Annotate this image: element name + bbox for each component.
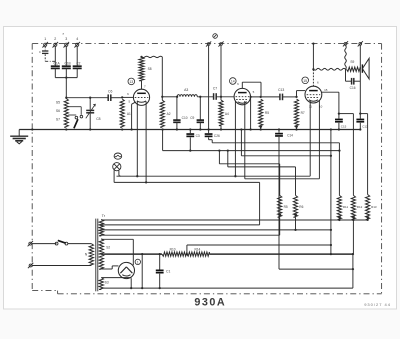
wire heater bus L1 <box>101 219 368 221</box>
resistor R5 <box>259 99 270 129</box>
resistor R10 <box>162 247 187 256</box>
voice coil S9 <box>347 60 361 72</box>
svg-text:S7: S7 <box>56 118 60 122</box>
coil A4 <box>219 97 229 130</box>
chassis dash-dot border right <box>381 44 383 294</box>
tube V2 anode lead <box>242 82 261 88</box>
wire anode down to R5 <box>260 82 262 98</box>
tube V4 rectifier <box>118 262 134 278</box>
svg-text:R12: R12 <box>357 205 363 209</box>
svg-text:C3: C3 <box>196 134 200 138</box>
wire rectifier output line B3 <box>101 287 353 289</box>
svg-text:C12: C12 <box>362 125 368 129</box>
svg-text:A1: A1 <box>127 112 131 116</box>
wire terminal 3 down <box>65 46 67 65</box>
svg-text:S6: S6 <box>56 109 60 113</box>
wire C7 to tube V2 grid <box>216 96 234 98</box>
resistor R11 hang <box>337 195 348 219</box>
svg-text:R14: R14 <box>194 247 200 251</box>
transformer secondary S2 <box>99 239 110 270</box>
antenna terminal 4 <box>74 42 80 48</box>
wire heater bus L4 <box>101 234 279 236</box>
svg-text:15: 15 <box>303 79 307 83</box>
wire A3 to C7 <box>197 96 213 98</box>
wire HT line B1 <box>101 253 354 255</box>
svg-text:1: 1 <box>44 37 46 41</box>
capacitor C9 <box>190 97 204 130</box>
svg-text:C9: C9 <box>190 116 194 120</box>
pickup terminal 2 <box>218 41 223 46</box>
capacitor C2 <box>73 62 82 69</box>
svg-text:C6: C6 <box>108 89 112 93</box>
tube V4 designator <box>135 259 140 264</box>
coil A3 <box>177 88 197 97</box>
svg-text:R5: R5 <box>284 205 288 209</box>
antenna terminal 2 <box>53 42 59 48</box>
variable capacitor C8 <box>86 98 101 130</box>
tube V1 pin labels <box>127 85 146 104</box>
wire heater line H2b <box>245 178 320 180</box>
svg-text:C7: C7 <box>213 87 217 91</box>
svg-text:4: 4 <box>76 37 78 41</box>
wire down to A2 <box>161 57 163 100</box>
wire screen feed horizontal <box>187 244 332 254</box>
svg-text:A3: A3 <box>184 88 188 92</box>
resistor R3 <box>278 195 288 235</box>
ground bus <box>19 128 360 130</box>
wire grid row left <box>66 97 108 99</box>
wire heater bus L3 <box>101 229 332 231</box>
wire mains 2 to transformer <box>32 265 91 267</box>
wire R12 bottom down <box>352 220 355 288</box>
wire tube V2 right pin to bus <box>250 97 252 130</box>
wire antenna down to coil <box>65 78 67 99</box>
wire AVC line M2 <box>163 130 340 152</box>
dial lamp leads <box>114 170 121 182</box>
resistor R12 hang <box>351 195 362 219</box>
svg-text:2: 2 <box>54 37 56 41</box>
wire C13 to R7 <box>283 96 298 98</box>
speaker terminal 2 <box>358 41 363 46</box>
svg-text:C10: C10 <box>182 116 188 120</box>
capacitor C16 <box>346 78 361 90</box>
pickup input socket <box>213 34 218 39</box>
chassis dash-dot border left <box>31 44 33 291</box>
transformer primary S1 <box>85 244 94 266</box>
tube V3 designator <box>302 77 309 84</box>
capacitor C3 <box>186 128 200 150</box>
capacitor C14 <box>275 128 293 269</box>
svg-text:A4: A4 <box>225 112 229 116</box>
capacitor C1 filter <box>156 254 171 289</box>
wire heater line H1 <box>117 175 311 177</box>
transformer secondary S4 <box>99 219 103 236</box>
resistor R13 hang <box>366 195 377 220</box>
coil A2 <box>160 100 171 127</box>
capacitor C10 <box>173 97 188 130</box>
wire tube V2 output row <box>249 96 279 98</box>
svg-text:C16: C16 <box>350 86 356 90</box>
wire S2 top to rectifier anode <box>101 239 133 265</box>
chassis dash-dot border bottom-left jog <box>32 291 57 294</box>
wire switch to transformer <box>68 243 92 245</box>
mains terminal 2 <box>28 263 33 268</box>
wire C14 return <box>279 268 354 270</box>
mains terminal 1 <box>28 241 33 246</box>
wire C6 to A1 <box>111 96 124 98</box>
svg-text:930/27 44: 930/27 44 <box>364 302 391 307</box>
terminal number labels <box>44 32 78 41</box>
speaker terminal 1 <box>343 41 348 46</box>
capacitor C1B trimmer under terminal 1 <box>39 46 49 61</box>
antenna terminal 3 <box>64 42 70 48</box>
tube V1 heater pins <box>137 102 146 183</box>
svg-text:R11: R11 <box>343 205 349 209</box>
resistor R4 <box>293 195 303 231</box>
dial lamp L2 <box>113 163 121 171</box>
svg-text:930A: 930A <box>194 297 226 309</box>
wire heater line H2 <box>114 181 260 225</box>
tube V1 anode lead <box>141 81 143 89</box>
coil A1 <box>120 99 131 127</box>
wire speaker terminal 2 down <box>359 45 361 113</box>
wire S3 top to rectifier heater <box>101 276 131 279</box>
wire A1 to tube V1 grid <box>122 96 133 98</box>
svg-text:S5: S5 <box>56 101 60 105</box>
loudspeaker <box>362 58 369 79</box>
tube V1 cathode lead <box>132 102 136 130</box>
svg-text:1: 1 <box>137 261 139 265</box>
svg-text:R10: R10 <box>170 247 176 251</box>
wave-band switch tap wires <box>68 107 81 115</box>
wire line M3 <box>240 128 332 157</box>
wire S2 bottom to rectifier anode 2 <box>101 266 118 269</box>
wire pickup 1 down <box>208 46 210 130</box>
resistor R8 anode load <box>139 57 152 81</box>
svg-text:S8: S8 <box>148 67 152 71</box>
svg-text:C1B: C1B <box>64 62 70 66</box>
svg-text:14: 14 <box>231 80 235 84</box>
svg-text:C1: C1 <box>166 269 170 273</box>
svg-text:S9: S9 <box>350 60 354 64</box>
wire A2 to A3 <box>162 96 178 98</box>
capacitor C7 <box>213 87 217 100</box>
title 930A <box>194 297 226 309</box>
wire terminal 4 down <box>76 46 78 65</box>
tube V2 <box>234 88 250 104</box>
capacitor C15 <box>335 112 347 130</box>
tube V2 designator <box>230 78 237 85</box>
tube V2 pin labels <box>237 82 254 94</box>
transformer label <box>102 214 106 218</box>
tube V3 anode lead to top border <box>312 42 314 86</box>
dial lamp L1 <box>114 153 122 159</box>
svg-text:C15: C15 <box>341 125 347 129</box>
wire speaker terminal 1 down <box>345 45 347 81</box>
capacitor C12 <box>356 112 368 130</box>
wire tube V3 screen to C15 <box>322 92 339 113</box>
svg-text:C8: C8 <box>96 117 100 121</box>
capacitor C1A <box>51 62 61 69</box>
wire R7 top to tube V3 grid <box>297 91 306 97</box>
antenna terminal 1 <box>42 42 48 48</box>
resistor R7 <box>294 99 305 129</box>
capacitor C26 <box>205 128 220 142</box>
footer reference text <box>364 302 391 307</box>
svg-text:C2: C2 <box>76 62 80 66</box>
coil S5 S6 S7 antenna coil <box>56 99 69 128</box>
pickup terminal 1 <box>206 41 211 46</box>
wire heater bus L2 <box>101 224 259 226</box>
wave-band switch lever <box>74 119 78 128</box>
wire B1 to heater line <box>141 254 143 289</box>
wire terminal 2 down <box>54 46 56 65</box>
svg-text:15: 15 <box>324 88 328 92</box>
wire pickup 2 down <box>220 46 222 97</box>
tube V1 <box>133 89 149 105</box>
tube V3 pin labels <box>309 80 328 108</box>
svg-text:R7: R7 <box>301 111 305 115</box>
svg-text:C13: C13 <box>278 88 284 92</box>
wire dash-dot from C1B to terminal 2 line <box>45 60 55 62</box>
ground symbol <box>10 130 28 144</box>
wire mains to switch <box>32 243 57 245</box>
svg-text:13: 13 <box>129 80 133 84</box>
wire rectifier heater pin down <box>130 278 132 289</box>
mains switch <box>55 240 68 245</box>
wire antenna caps common bus <box>55 68 77 78</box>
capacitor C1B <box>62 62 71 69</box>
wire screen feed vertical <box>330 130 332 256</box>
wire AVC line M1 <box>212 143 340 196</box>
wire wavy anode to output transformer <box>313 68 345 70</box>
svg-text:C1A: C1A <box>53 62 60 66</box>
capacitor C6 <box>108 89 112 101</box>
svg-text:C: C <box>39 50 41 54</box>
wire line M5 to R4 <box>228 151 296 196</box>
wire line M4 to R3 <box>219 151 279 196</box>
svg-text:A2: A2 <box>167 112 171 116</box>
tube V2 heater pins <box>235 101 244 179</box>
svg-text:S3: S3 <box>105 281 109 285</box>
wire speaker line tee to R13 <box>360 114 367 195</box>
svg-text:R5: R5 <box>265 111 269 115</box>
capacitor C13 <box>278 88 284 100</box>
svg-text:S2: S2 <box>106 245 110 249</box>
tube V3 heater pins <box>310 101 319 179</box>
wire R8 top to A2 top <box>140 56 162 58</box>
svg-text:3: 3 <box>65 37 67 41</box>
tube V1 designator <box>128 78 135 85</box>
wire C15 tee to R12 <box>339 114 354 196</box>
svg-text:R13: R13 <box>371 205 377 209</box>
wave-band switch contacts <box>75 115 83 119</box>
chassis dash-dot border bottom <box>58 293 382 295</box>
tube V3 <box>305 86 322 103</box>
resistor R14 <box>187 247 210 256</box>
svg-text:C14: C14 <box>287 133 293 137</box>
svg-text:R6: R6 <box>299 205 303 209</box>
svg-text:C26: C26 <box>214 134 220 138</box>
chassis dash-dot border top <box>32 43 381 45</box>
transformer core <box>96 219 98 292</box>
transformer secondary S3 <box>99 278 109 290</box>
